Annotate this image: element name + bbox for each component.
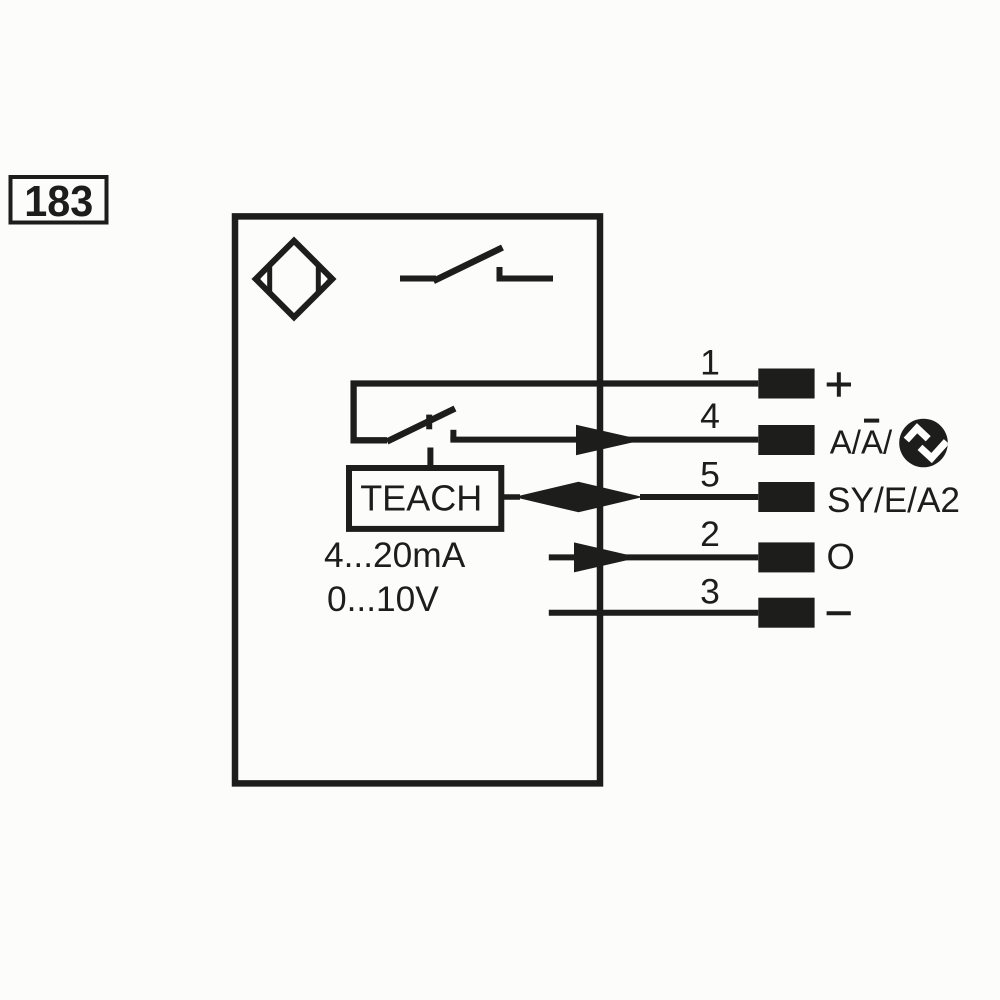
svg-text:SY/E/A2: SY/E/A2 <box>827 481 960 520</box>
svg-text:183: 183 <box>24 177 93 226</box>
svg-text:A/A/: A/A/ <box>830 424 893 461</box>
svg-text:4...20mA: 4...20mA <box>324 536 466 575</box>
svg-text:O: O <box>827 536 855 577</box>
svg-text:TEACH: TEACH <box>360 478 482 519</box>
svg-text:0...10V: 0...10V <box>327 580 439 619</box>
svg-text:5: 5 <box>700 455 720 495</box>
svg-text:4: 4 <box>700 396 720 436</box>
svg-text:1: 1 <box>700 343 720 383</box>
svg-text:2: 2 <box>700 514 720 554</box>
svg-text:3: 3 <box>700 571 720 611</box>
